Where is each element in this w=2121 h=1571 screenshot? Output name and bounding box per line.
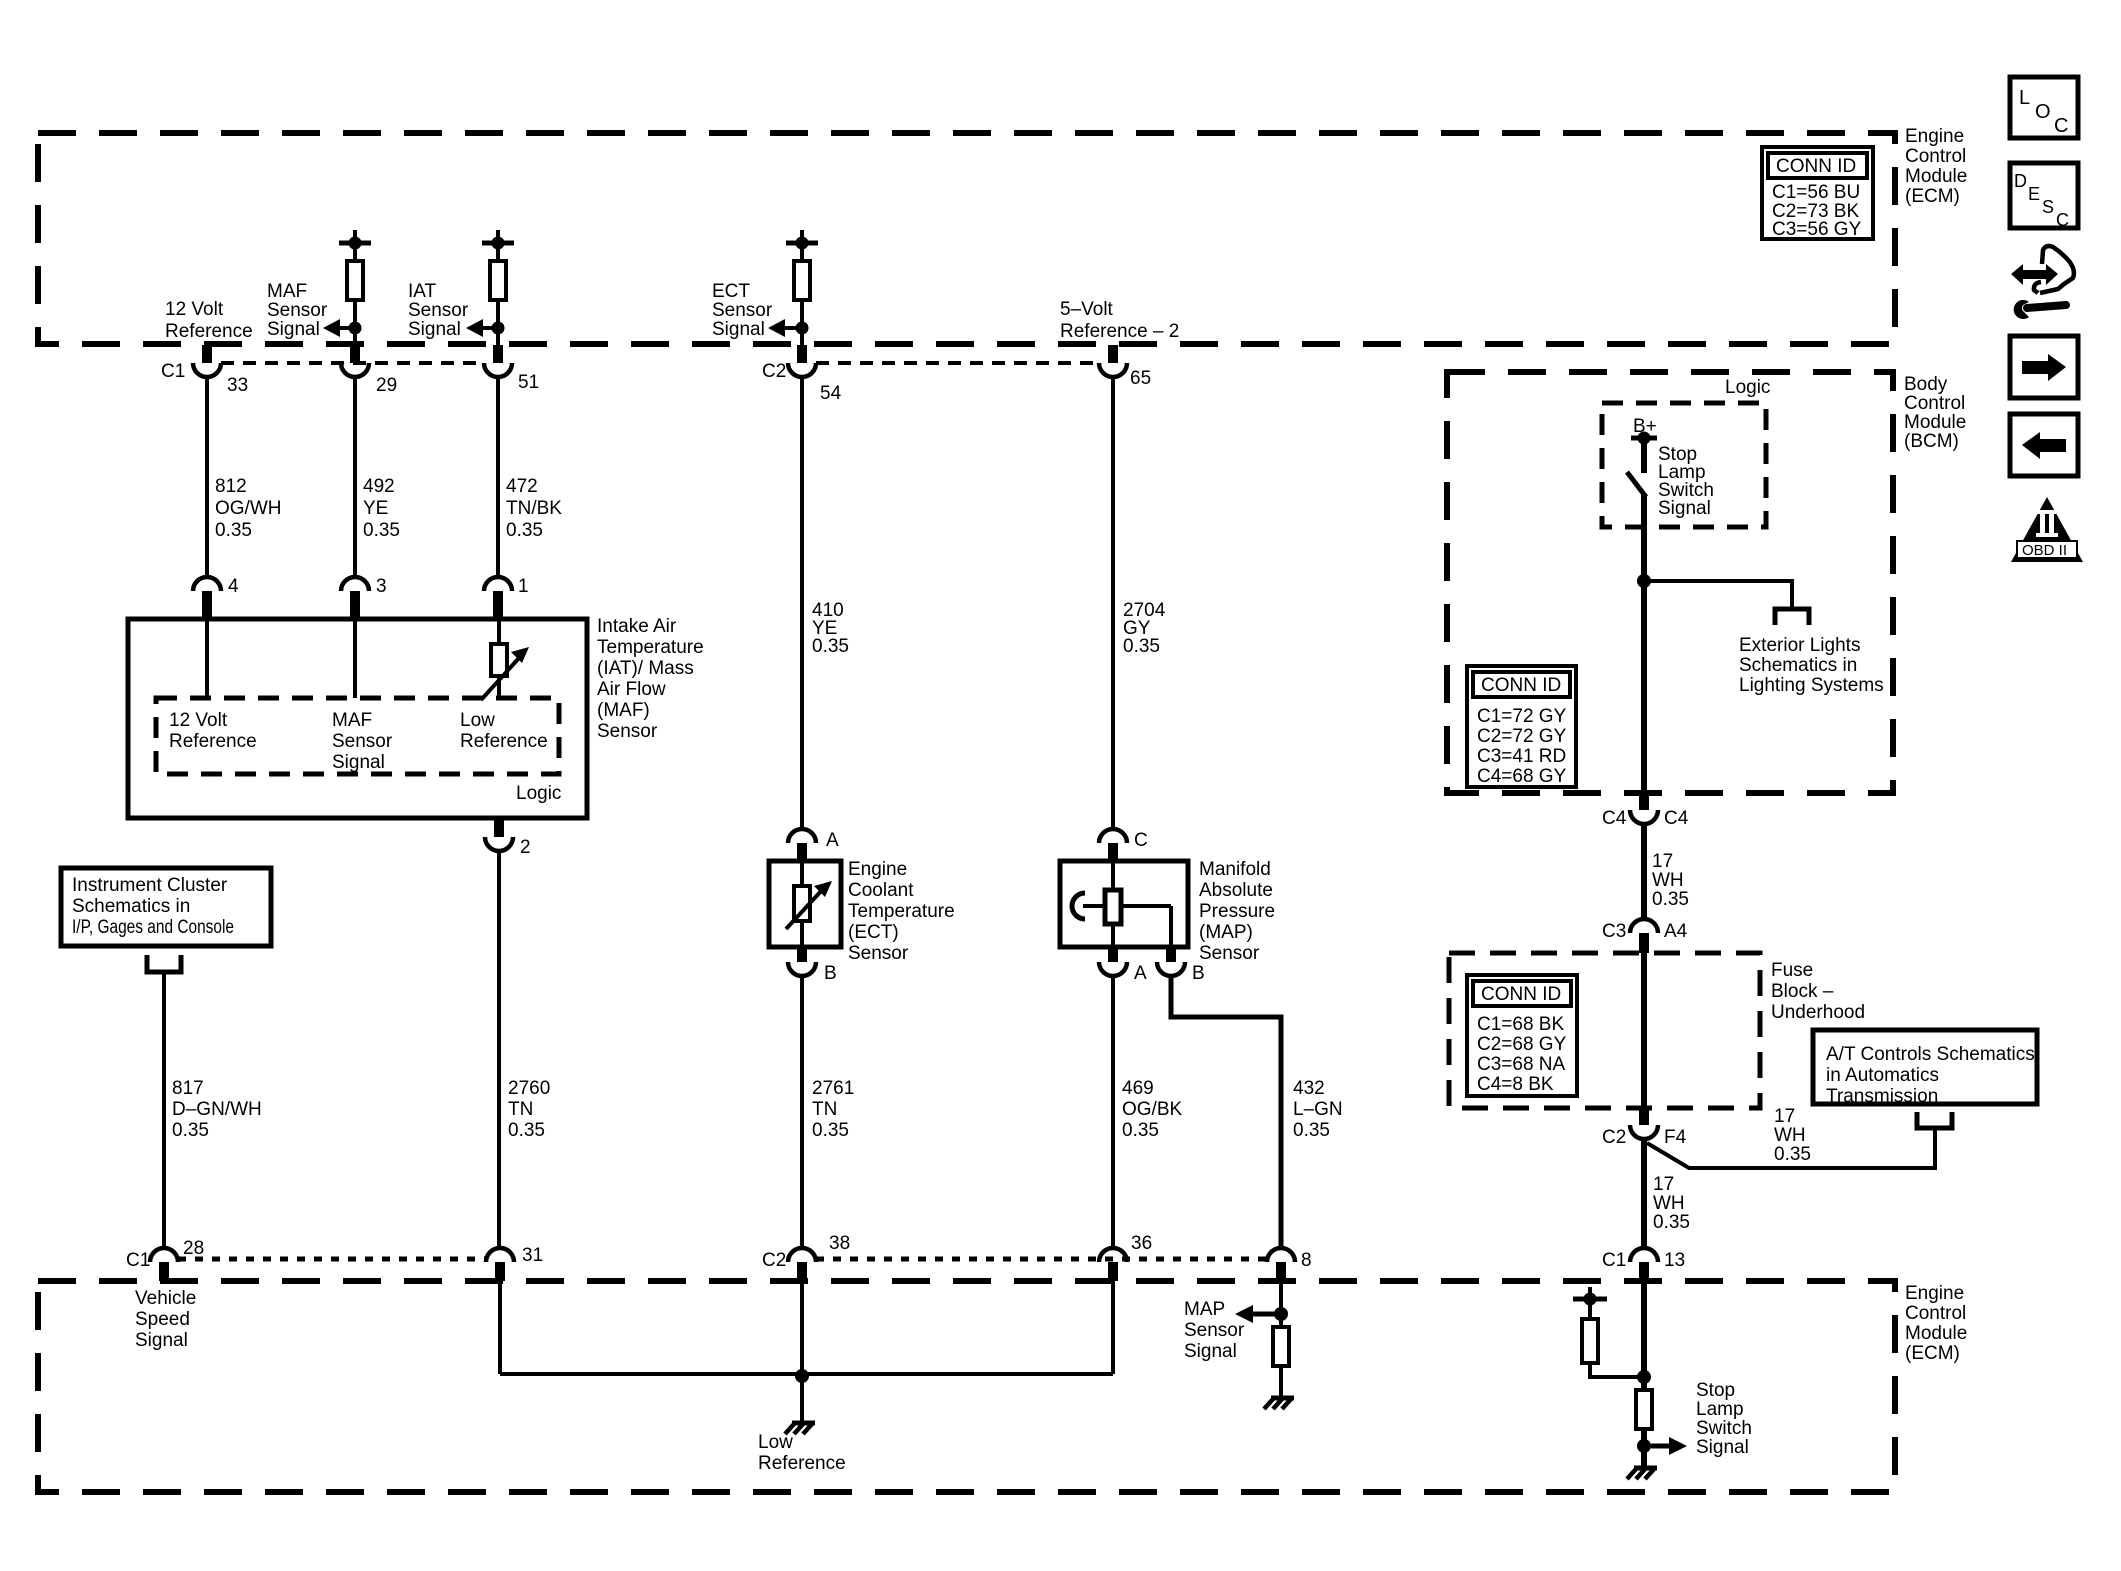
svg-text:Exterior Lights: Exterior Lights — [1739, 635, 1860, 656]
connector face line C1 (dashed) — [221, 361, 484, 365]
svg-text:36: 36 — [1131, 1233, 1152, 1254]
svg-text:817: 817 — [172, 1078, 204, 1099]
icon arrow left — [2010, 414, 2078, 476]
svg-text:28: 28 — [183, 1238, 204, 1259]
svg-text:Instrument Cluster: Instrument Cluster — [72, 875, 228, 896]
svg-text:0.35: 0.35 — [1122, 1120, 1159, 1141]
svg-text:Sensor: Sensor — [712, 300, 773, 321]
svg-text:B: B — [824, 963, 837, 984]
svg-text:(MAP): (MAP) — [1199, 922, 1253, 943]
svg-text:Engine: Engine — [1905, 126, 1964, 147]
svg-text:(ECT): (ECT) — [848, 922, 899, 943]
svg-text:Module: Module — [1905, 166, 1967, 187]
CONN ID table Fuse Block — [1467, 975, 1577, 1096]
svg-text:0.35: 0.35 — [215, 520, 252, 541]
label Manifold Absolute Pressure (MAP) Sensor — [1199, 859, 1275, 964]
svg-text:Body: Body — [1904, 374, 1948, 395]
svg-text:Transmission: Transmission — [1826, 1086, 1938, 1107]
svg-text:in Automatics: in Automatics — [1826, 1065, 1939, 1086]
node Vehicle Speed Signal — [135, 1288, 196, 1351]
svg-text:Module: Module — [1905, 1323, 1967, 1344]
svg-text:51: 51 — [518, 372, 539, 393]
svg-text:0.35: 0.35 — [1653, 1212, 1690, 1233]
svg-text:(MAF): (MAF) — [597, 700, 650, 721]
wire low reference bus (horizontal) — [500, 1372, 1113, 1376]
svg-text:C2: C2 — [762, 361, 786, 382]
connector C1 pin 51 (ECM top) — [484, 345, 539, 393]
svg-text:0.35: 0.35 — [1774, 1144, 1811, 1165]
wire 410 YE (ECT signal) — [802, 377, 849, 829]
svg-text:A: A — [826, 830, 839, 851]
svg-text:Reference: Reference — [165, 321, 253, 342]
ground (stop lamp) — [1627, 1468, 1657, 1479]
icon arrow right — [2010, 336, 2078, 398]
svg-text:472: 472 — [506, 476, 538, 497]
svg-text:CONN ID: CONN ID — [1481, 984, 1561, 1005]
svg-text:0.35: 0.35 — [363, 520, 400, 541]
wire branch to exterior lights — [1644, 581, 1792, 609]
node ECT Sensor Signal label + arrow — [712, 281, 809, 340]
svg-text:C1=68 BK: C1=68 BK — [1477, 1014, 1564, 1035]
svg-text:Schematics in: Schematics in — [72, 896, 190, 917]
svg-text:0.35: 0.35 — [812, 1120, 849, 1141]
node MAF Sensor Signal (MAF internal) — [332, 710, 393, 773]
svg-text:S: S — [2042, 197, 2054, 217]
connector pin A (ECT top) — [788, 829, 839, 861]
node 12 Volt Reference (MAF internal) — [169, 710, 257, 752]
svg-text:Vehicle: Vehicle — [135, 1288, 196, 1309]
svg-text:Fuse: Fuse — [1771, 960, 1813, 981]
resistor R-MAF pullup (inside ECM) with supply T-bar — [339, 230, 371, 347]
svg-text:Signal: Signal — [1658, 498, 1711, 519]
resistor (MAP signal load, inside ECM) — [1273, 1327, 1289, 1398]
wire MAF internal pin1 — [497, 619, 501, 644]
svg-text:L: L — [2019, 87, 2030, 109]
connector C2 pin 38 (ECM bottom) — [762, 1233, 850, 1281]
svg-text:Reference: Reference — [758, 1453, 846, 1474]
wire low reference bus (pin 36 leg) — [1111, 1281, 1115, 1374]
svg-text:33: 33 — [227, 375, 248, 396]
svg-text:Underhood: Underhood — [1771, 1002, 1865, 1023]
wire 469 OG/BK (MAP A to ECM 36) — [1113, 976, 1183, 1248]
connector C4 C4 (BCM bottom) — [1602, 793, 1689, 829]
svg-text:31: 31 — [522, 1245, 543, 1266]
svg-text:Control: Control — [1904, 393, 1965, 414]
sensor B1 MAF/IAT box — [128, 619, 587, 818]
svg-text:0.35: 0.35 — [1123, 636, 1160, 657]
svg-text:TN: TN — [812, 1099, 837, 1120]
svg-text:492: 492 — [363, 476, 395, 497]
svg-text:Manifold: Manifold — [1199, 859, 1271, 880]
wire 2761 TN (ECT B to ECM 38) — [802, 976, 854, 1248]
reference box Instrument Cluster — [61, 868, 271, 946]
svg-text:Coolant: Coolant — [848, 880, 914, 901]
svg-text:C1: C1 — [126, 1250, 150, 1271]
module ECM (bottom) dashed box — [38, 1281, 1895, 1492]
wire through fuse block — [1641, 953, 1647, 1108]
connector C1 pin 33 (ECM top) — [161, 345, 248, 396]
label Fuse Block - Underhood — [1771, 960, 1865, 1023]
off-page bracket (instrument cluster) — [147, 955, 181, 972]
svg-text:D: D — [2014, 171, 2027, 191]
connector pin 1 (MAF) — [484, 576, 529, 619]
svg-text:C: C — [1134, 830, 1148, 851]
connector C2 pin 36 (ECM bottom) — [1099, 1233, 1152, 1281]
CONN ID table BCM — [1467, 666, 1576, 787]
svg-text:A/T Controls Schematics: A/T Controls Schematics — [1826, 1044, 2035, 1065]
svg-text:C3=41 RD: C3=41 RD — [1477, 746, 1566, 767]
svg-text:WH: WH — [1652, 870, 1684, 891]
node 5-Volt Reference - 2 label — [1060, 299, 1179, 342]
svg-text:Signal: Signal — [332, 752, 385, 773]
connector face line C2 bottom (dotted) — [816, 1257, 1267, 1262]
svg-text:Module: Module — [1904, 412, 1966, 433]
svg-text:L–GN: L–GN — [1293, 1099, 1343, 1120]
label Body Control Module (BCM) — [1904, 374, 1966, 452]
svg-text:17: 17 — [1652, 851, 1673, 872]
module ECM (top) dashed box — [38, 133, 1895, 344]
wire low reference bus (pin 31 leg) — [498, 1281, 502, 1374]
svg-text:0.35: 0.35 — [1652, 889, 1689, 910]
junction pull-up to trunk — [1637, 1370, 1651, 1384]
svg-text:Speed: Speed — [135, 1309, 190, 1330]
svg-text:17: 17 — [1774, 1106, 1795, 1127]
svg-text:Sensor: Sensor — [1199, 943, 1260, 964]
svg-text:2: 2 — [520, 837, 531, 858]
svg-text:Signal: Signal — [408, 319, 461, 340]
svg-text:Absolute: Absolute — [1199, 880, 1273, 901]
svg-text:(BCM): (BCM) — [1904, 431, 1959, 452]
wire 472 TN/BK (IAT signal to pin 1) — [498, 377, 562, 577]
label Engine Control Module (ECM) bottom right — [1905, 1283, 1967, 1364]
svg-text:ECT: ECT — [712, 281, 750, 302]
node Low Reference label — [758, 1432, 846, 1474]
wire MAF internal pin4 — [205, 619, 209, 698]
svg-text:(IAT)/ Mass: (IAT)/ Mass — [597, 658, 694, 679]
svg-text:0.35: 0.35 — [812, 636, 849, 657]
svg-text:MAF: MAF — [267, 281, 307, 302]
connector pin B (ECT bottom) — [788, 947, 837, 984]
module Fuse Block - Underhood dashed box — [1449, 953, 1760, 1108]
svg-text:Reference – 2: Reference – 2 — [1060, 321, 1179, 342]
svg-text:432: 432 — [1293, 1078, 1325, 1099]
svg-text:Logic: Logic — [516, 783, 561, 804]
svg-text:C1: C1 — [1602, 1250, 1626, 1271]
svg-text:Sensor: Sensor — [332, 731, 393, 752]
svg-text:Reference: Reference — [169, 731, 257, 752]
logic box (BCM inner dashed, stop lamp switch) — [1602, 403, 1766, 527]
svg-text:A: A — [1134, 963, 1147, 984]
CONN ID table ECM — [1762, 147, 1873, 240]
svg-text:469: 469 — [1122, 1078, 1154, 1099]
svg-text:C2=72 GY: C2=72 GY — [1477, 726, 1567, 747]
module BCM dashed box — [1447, 372, 1893, 793]
svg-text:Engine: Engine — [1905, 1283, 1964, 1304]
svg-text:0.35: 0.35 — [1293, 1120, 1330, 1141]
wire pin 38 to ground — [800, 1281, 804, 1423]
svg-text:Low: Low — [460, 710, 495, 731]
label Intake Air Temperature (IAT)/ Mass Air Flow (MAF) Sensor — [597, 616, 704, 742]
svg-text:29: 29 — [376, 375, 397, 396]
connector face line C1 bottom (dotted) — [178, 1257, 486, 1262]
svg-text:Temperature: Temperature — [597, 637, 704, 658]
wire 812 OG/WH (12V ref to MAF pin 4) — [207, 377, 282, 577]
wire 2760 TN (MAF pin 2 to ECM 31) — [499, 851, 550, 1248]
svg-text:Sensor: Sensor — [267, 300, 328, 321]
logic box (MAF inner dashed) — [156, 698, 559, 774]
thermistor RT2 (ECT element, variable resistor) — [786, 861, 832, 947]
connector pin A (MAP bottom) — [1099, 947, 1147, 984]
connector pin 3 (MAF) — [341, 576, 387, 619]
svg-text:Pressure: Pressure — [1199, 901, 1275, 922]
resistor (stop lamp series, inside ECM) — [1636, 1390, 1652, 1468]
resistor R-IAT pullup (inside ECM) with supply T-bar — [482, 230, 514, 347]
connector pin C (MAP top) — [1099, 829, 1148, 861]
thermistor RT1 (IAT element, variable resistor) — [481, 644, 529, 700]
node Low Reference (MAF internal) — [460, 710, 548, 752]
svg-text:Signal: Signal — [712, 319, 765, 340]
svg-text:(ECM): (ECM) — [1905, 1343, 1960, 1364]
wire 17 WH (F4 to ECM 13) — [1644, 1139, 1690, 1248]
wire pin 8 to MAP signal junction — [1279, 1281, 1283, 1327]
svg-text:Engine: Engine — [848, 859, 907, 880]
sensor B3 MAP box — [1060, 861, 1188, 947]
svg-text:OG/WH: OG/WH — [215, 498, 282, 519]
svg-text:0.35: 0.35 — [508, 1120, 545, 1141]
svg-text:65: 65 — [1130, 368, 1151, 389]
svg-text:Lighting Systems: Lighting Systems — [1739, 675, 1884, 696]
svg-text:12 Volt: 12 Volt — [169, 710, 228, 731]
icon LOC — [2010, 77, 2078, 138]
connector C2 pin 65 (ECM top) — [1099, 345, 1151, 389]
svg-text:O: O — [2035, 101, 2051, 123]
svg-text:Intake Air: Intake Air — [597, 616, 677, 637]
svg-text:IAT: IAT — [408, 281, 437, 302]
connector pin 2 (MAF bottom) — [485, 819, 531, 858]
switch SW (stop lamp) blade — [1627, 472, 1646, 497]
svg-text:Low: Low — [758, 1432, 793, 1453]
svg-text:TN/BK: TN/BK — [506, 498, 562, 519]
svg-text:1: 1 — [518, 576, 529, 597]
svg-text:3: 3 — [376, 576, 387, 597]
connector C2 F4 (fuse block bottom) — [1602, 1108, 1687, 1148]
svg-text:C: C — [2054, 115, 2068, 137]
svg-text:E: E — [2028, 184, 2040, 204]
label Engine Coolant Temperature (ECT) Sensor — [848, 859, 955, 964]
svg-text:Reference: Reference — [460, 731, 548, 752]
svg-text:Signal: Signal — [1696, 1437, 1749, 1458]
svg-text:Air Flow: Air Flow — [597, 679, 666, 700]
svg-text:C2: C2 — [762, 1250, 786, 1271]
svg-text:CONN ID: CONN ID — [1481, 675, 1561, 696]
connector C1 pin 31 (ECM bottom) — [486, 1245, 543, 1281]
svg-text:A4: A4 — [1664, 921, 1688, 942]
label Exterior Lights Schematics in Lighting Systems — [1739, 635, 1884, 696]
node IAT Sensor Signal label + arrow — [408, 281, 505, 340]
svg-text:C2=68 GY: C2=68 GY — [1477, 1034, 1567, 1055]
off-page bracket (exterior lights) — [1775, 609, 1809, 625]
node 12 Volt Reference label — [165, 299, 253, 342]
svg-text:54: 54 — [820, 383, 842, 404]
wire 817 D-GN/WH (cluster to ECM 28) — [164, 972, 262, 1248]
svg-text:8: 8 — [1301, 1250, 1312, 1271]
svg-text:Logic: Logic — [1725, 377, 1770, 398]
svg-text:C1=56 BU: C1=56 BU — [1772, 182, 1860, 203]
icon scan tool (double arrow + hook + wrench) — [2011, 246, 2074, 319]
svg-text:12 Volt: 12 Volt — [165, 299, 224, 320]
svg-text:Stop: Stop — [1696, 1380, 1735, 1401]
svg-text:C2: C2 — [1602, 1127, 1626, 1148]
svg-text:4: 4 — [228, 576, 239, 597]
svg-text:OBD II: OBD II — [2022, 542, 2067, 559]
svg-text:C4: C4 — [1602, 808, 1627, 829]
icon OBD II triangle — [2011, 497, 2083, 562]
svg-text:Control: Control — [1905, 1303, 1966, 1324]
ground (low reference) — [785, 1423, 815, 1434]
svg-text:Lamp: Lamp — [1696, 1399, 1744, 1420]
svg-text:2760: 2760 — [508, 1078, 550, 1099]
svg-text:C3=56 GY: C3=56 GY — [1772, 219, 1862, 240]
svg-text:F4: F4 — [1664, 1127, 1687, 1148]
sensor B2 ECT box — [769, 861, 841, 947]
svg-text:Signal: Signal — [135, 1330, 188, 1351]
svg-text:B: B — [1192, 963, 1205, 984]
wire 2704 GY (5V ref 2 to MAP C) — [1113, 377, 1166, 829]
wire 492 YE (MAF signal to pin 3) — [355, 377, 400, 577]
MAP internal pressure transducer — [1072, 861, 1171, 947]
wire stop lamp trunk inside ECM — [1641, 1281, 1647, 1390]
supply T-bar (stop lamp pull-up) — [1573, 1287, 1607, 1319]
svg-text:Sensor: Sensor — [408, 300, 469, 321]
wire 17 WH branch to A/T controls — [1647, 1106, 1935, 1168]
svg-text:Sensor: Sensor — [1184, 1320, 1245, 1341]
svg-text:I/P, Gages and Console: I/P, Gages and Console — [72, 917, 234, 938]
connector face line C2 (dashed) — [816, 361, 1099, 365]
connector C1 pin 13 (ECM bottom right) — [1602, 1248, 1685, 1281]
resistor (stop lamp pull-up) — [1582, 1319, 1644, 1377]
node MAF Sensor Signal label + arrow — [267, 281, 362, 340]
svg-text:WH: WH — [1774, 1125, 1806, 1146]
icon DESC — [2010, 163, 2078, 230]
ground (MAP signal) — [1264, 1398, 1294, 1409]
svg-text:D–GN/WH: D–GN/WH — [172, 1099, 262, 1120]
svg-text:Schematics in: Schematics in — [1739, 655, 1857, 676]
svg-text:C3: C3 — [1602, 921, 1626, 942]
svg-text:0.35: 0.35 — [172, 1120, 209, 1141]
svg-text:0.35: 0.35 — [506, 520, 543, 541]
svg-text:(ECM): (ECM) — [1905, 186, 1960, 207]
connector C2 pin 54 (ECM top) — [762, 345, 842, 404]
resistor R-ECT pullup (inside ECM) with supply T-bar — [786, 230, 818, 347]
connector pin 4 (MAF) — [193, 576, 239, 619]
node MAP Sensor Signal (arrow + label) — [1184, 1299, 1288, 1362]
svg-text:C: C — [2056, 210, 2069, 230]
label Engine Control Module (ECM) top right — [1905, 126, 1967, 207]
svg-text:YE: YE — [363, 498, 388, 519]
svg-text:C4: C4 — [1664, 808, 1689, 829]
svg-text:C4=8 BK: C4=8 BK — [1477, 1074, 1554, 1095]
wire MAF internal pin3 — [353, 619, 357, 698]
svg-text:Sensor: Sensor — [848, 943, 909, 964]
off-page bracket (A/T controls) — [1917, 1112, 1952, 1128]
svg-text:MAF: MAF — [332, 710, 372, 731]
wire 17 WH (C4 to fuse block A4) — [1644, 824, 1689, 919]
svg-text:OG/BK: OG/BK — [1122, 1099, 1183, 1120]
svg-text:Signal: Signal — [267, 319, 320, 340]
svg-text:MAP: MAP — [1184, 1299, 1225, 1320]
svg-text:Block –: Block – — [1771, 981, 1834, 1002]
svg-text:5–Volt: 5–Volt — [1060, 299, 1114, 320]
junction stop lamp signal — [1637, 1439, 1651, 1453]
svg-text:812: 812 — [215, 476, 247, 497]
svg-text:Switch: Switch — [1696, 1418, 1752, 1439]
reference box A/T Controls — [1813, 1030, 2037, 1107]
svg-text:Temperature: Temperature — [848, 901, 955, 922]
node Stop Lamp Switch Signal (BCM) label — [1658, 444, 1714, 519]
svg-text:C3=68 NA: C3=68 NA — [1477, 1054, 1566, 1075]
svg-text:2761: 2761 — [812, 1078, 854, 1099]
svg-text:Control: Control — [1905, 146, 1966, 167]
svg-text:CONN ID: CONN ID — [1776, 156, 1856, 177]
node Stop Lamp Switch Signal (ECM, arrow + label) — [1651, 1380, 1752, 1458]
svg-text:C1: C1 — [161, 361, 185, 382]
svg-text:TN: TN — [508, 1099, 533, 1120]
connector C1 pin 29 (ECM top) — [341, 345, 397, 396]
connector C3 A4 (fuse block top) — [1602, 919, 1688, 953]
connector pin B (MAP bottom) — [1157, 947, 1205, 984]
svg-text:38: 38 — [829, 1233, 850, 1254]
svg-text:C1=72 GY: C1=72 GY — [1477, 706, 1567, 727]
node B+ supply — [1631, 416, 1657, 473]
svg-text:Sensor: Sensor — [597, 721, 658, 742]
junction low reference — [795, 1369, 809, 1383]
svg-text:C4=68 GY: C4=68 GY — [1477, 766, 1567, 787]
svg-text:13: 13 — [1664, 1250, 1685, 1271]
svg-text:Signal: Signal — [1184, 1341, 1237, 1362]
connector C1 pin 28 (ECM bottom) — [126, 1238, 204, 1281]
svg-text:17: 17 — [1653, 1174, 1674, 1195]
junction exterior lights branch — [1637, 574, 1651, 588]
svg-text:WH: WH — [1653, 1193, 1685, 1214]
connector C2 pin 8 (ECM bottom) — [1267, 1248, 1312, 1281]
wire 432 L-GN (MAP B to ECM 8) — [1171, 976, 1343, 1248]
wire stop lamp trunk (switch to C4) — [1641, 495, 1647, 793]
